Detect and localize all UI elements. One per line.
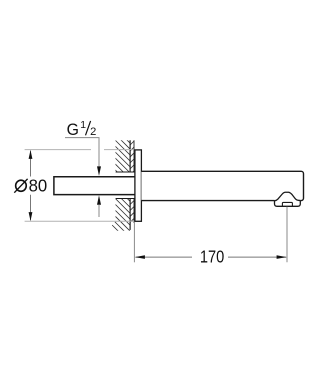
label O80: drawn diameter symbol [16, 180, 27, 191]
svg-text:2: 2 [90, 126, 96, 138]
svg-text:G: G [67, 121, 79, 139]
wall hatching lower field [25, 138, 163, 234]
svg-text:80: 80 [29, 176, 48, 196]
aerator outlet notch [282, 202, 292, 206]
spout body [141, 171, 303, 200]
arrow right 170 [277, 255, 287, 259]
wall face line [129, 140, 131, 230]
tile band hatching lower [129, 200, 135, 230]
tile band hatching upper [129, 140, 135, 176]
arrow down to pipe top [97, 166, 101, 176]
tile band line [133, 140, 135, 223]
aerator dome [274, 192, 300, 201]
wall hatching upper field [71, 138, 221, 234]
dim line O80 vertical [30, 151, 32, 221]
pipe [54, 177, 135, 195]
arrow tail below pipe [98, 205, 100, 218]
dim G1/2 leader [65, 138, 99, 168]
svg-text:170: 170 [200, 247, 224, 267]
dim 170 extension left [133, 222, 135, 262]
arrow down O80 [29, 212, 33, 221]
arrow up O80 [29, 150, 33, 159]
svg-text:1: 1 [80, 120, 86, 131]
arrow up to pipe bottom [97, 195, 101, 205]
extension line bottom (grey) [25, 220, 135, 222]
dim line 170 [136, 256, 287, 258]
dim 170 extension right [286, 207, 288, 262]
in-wall socket [116, 172, 135, 199]
wall plate [135, 150, 142, 221]
aerator housing [275, 200, 301, 206]
extension line top (grey) [25, 149, 134, 151]
arrow left 170 [135, 255, 145, 259]
